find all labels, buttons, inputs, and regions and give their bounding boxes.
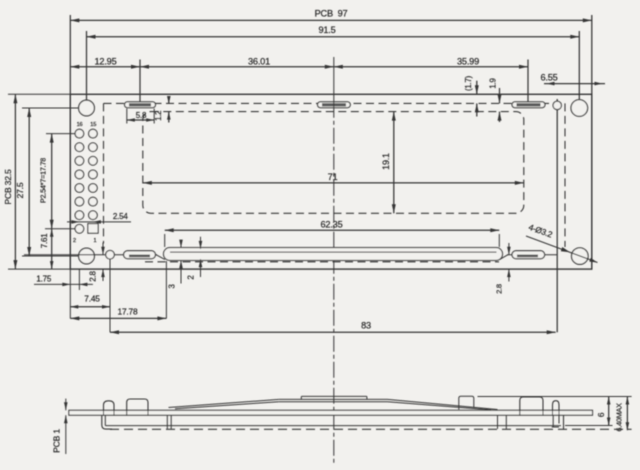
svg-text:P2.54*7=17.78: P2.54*7=17.78 [39, 158, 48, 203]
dimension PCB 1 [51, 399, 67, 454]
side view bezel wedge lower-left diagonal [175, 402, 279, 409]
pin label 15 [90, 122, 96, 128]
side view fold seam left a [166, 415, 168, 429]
svg-text:2.54: 2.54 [113, 212, 129, 221]
svg-text:6: 6 [596, 412, 606, 417]
svg-text:16: 16 [77, 122, 83, 128]
side view bezel right top edge [478, 396, 593, 398]
svg-text:12.95: 12.95 [95, 57, 117, 67]
svg-text:1.9: 1.9 [489, 78, 498, 88]
side view bezel wedge upper-right diagonal [388, 399, 498, 409]
extension line PCB right edge up [591, 15, 593, 94]
pin label 2 [73, 238, 76, 244]
mounting hole bottom-left [79, 248, 95, 264]
top slot 1 (5.8 slot) [125, 102, 156, 108]
long slot outline [164, 248, 503, 261]
side view left pin tab [104, 401, 115, 415]
dimension 6 [596, 397, 611, 426]
bottom row centerline left [24, 254, 157, 256]
svg-text:17.78: 17.78 [118, 306, 139, 316]
long slot right lead-in [500, 255, 509, 260]
pin label 1 [94, 238, 97, 244]
svg-text:83: 83 [361, 321, 371, 331]
dimension 2.8 left [88, 243, 104, 282]
side view bezel plateau [301, 396, 367, 399]
dimension 3 (slot height) [168, 240, 183, 289]
small hole top-right [553, 101, 561, 109]
small hole bottom-left [106, 250, 115, 259]
svg-text:36.01: 36.01 [248, 57, 270, 67]
svg-text:27.5: 27.5 [15, 182, 25, 198]
bezel outline right edge (dashed) [564, 103, 566, 247]
dimension PCB 32.5 [3, 94, 18, 269]
svg-text:7.45: 7.45 [84, 293, 100, 303]
bottom slot pad right [512, 251, 545, 259]
mounting hole bottom-right [572, 248, 589, 265]
dimension 6.40MAX [615, 397, 630, 432]
extension line right mounting hole up [578, 31, 580, 100]
side view fold seam right b [505, 415, 507, 429]
svg-text:PCB 32.5: PCB 32.5 [3, 169, 13, 205]
pin label 16 [77, 122, 83, 128]
dimension 91.5 [87, 25, 580, 39]
side view frame right wall [563, 415, 565, 429]
svg-text:PCB 97: PCB 97 [315, 9, 348, 19]
svg-text:6.55: 6.55 [540, 73, 557, 83]
side view left slot tab [127, 399, 148, 415]
vertical centerline [333, 57, 335, 464]
dimension P2.54*7=17.78 [39, 134, 54, 229]
svg-text:PCB 1: PCB 1 [51, 429, 61, 453]
side view bezel top line [279, 398, 388, 400]
dimension 83 [110, 321, 556, 335]
svg-text:2: 2 [73, 238, 76, 244]
dimension 35.99 [334, 57, 528, 69]
extension line left mounting hole up [86, 31, 88, 100]
long slot inner line [170, 251, 497, 253]
side view bezel wedge upper-left diagonal [169, 399, 279, 407]
dimension 12.95 [70, 57, 140, 69]
bottom slot pad left [124, 251, 156, 259]
side view right pin tab [553, 401, 560, 416]
dimension 19.1 [381, 112, 396, 214]
side view bezel inner top line [279, 401, 388, 403]
extension line small hole right [556, 99, 558, 332]
svg-text:62.35: 62.35 [321, 220, 343, 230]
mounting hole top-left [79, 100, 95, 116]
top slot 3 (right) [512, 102, 545, 108]
dimension (1.7) [464, 75, 479, 116]
svg-text:71: 71 [328, 172, 338, 182]
dimension 5.8 [127, 109, 154, 124]
side view frame bottom dashed line [110, 428, 632, 430]
dimension 17.78 [70, 261, 166, 320]
bezel outline top edge (dashed) [104, 102, 566, 104]
side view PCB bar [69, 410, 593, 415]
svg-text:5.8: 5.8 [136, 111, 147, 120]
dimension 71 [143, 172, 524, 185]
side view fold seam right a [497, 415, 499, 429]
extension line slot3 center [527, 60, 529, 103]
svg-text:7.61: 7.61 [40, 233, 49, 249]
svg-text:19.1: 19.1 [381, 153, 391, 170]
connector line pin row1 [46, 133, 75, 135]
bottom row centerline right [507, 254, 557, 256]
top slot 2 (middle) [318, 102, 351, 108]
long slot left lead-in [156, 255, 165, 260]
svg-text:91.5: 91.5 [318, 25, 335, 35]
bezel outline left edge (dashed) [103, 103, 105, 243]
dimension 1.2 [154, 96, 171, 123]
svg-text:1: 1 [94, 238, 97, 244]
side view fold seam left b [170, 415, 172, 429]
dimension 27.5 [15, 108, 31, 256]
dimension 2.54 pitch [67, 212, 131, 224]
side view bezel wedge lower-right diagonal [388, 402, 492, 410]
svg-text:2.8: 2.8 [495, 284, 504, 294]
bezel outline bottom edge (dashed) [145, 261, 499, 263]
svg-text:6.40MAX: 6.40MAX [615, 403, 624, 432]
dimension 7.61 [40, 229, 54, 269]
connector line pcb bottom-left [8, 268, 70, 270]
side view right bump tab [459, 396, 474, 409]
PCB outline front view [70, 94, 592, 269]
connector pin holes 2x8 [75, 129, 98, 233]
svg-text:1.75: 1.75 [36, 275, 52, 284]
dimension 1.75 [34, 269, 93, 318]
connector line pin row8 [45, 228, 75, 230]
dimension 62.35 [165, 220, 500, 247]
side view frame left wall [102, 415, 112, 429]
svg-text:2.8: 2.8 [88, 270, 97, 281]
dimension 7.45 [70, 259, 110, 332]
svg-text:35.99: 35.99 [457, 57, 479, 67]
connector line hole bottom-left [22, 255, 79, 257]
connector line pcb top-left [8, 93, 70, 95]
svg-text:(1.7): (1.7) [464, 75, 473, 91]
dimension 1.9 [489, 78, 502, 122]
dimension PCB 97 [70, 9, 592, 23]
svg-text:15: 15 [90, 122, 96, 128]
side view right slot tab [520, 397, 543, 415]
dimension 6.55 [540, 73, 605, 86]
dimension 2.8 right [495, 243, 511, 294]
side view frame bottom inner line [105, 425, 561, 427]
extension line frame bottom right [565, 425, 613, 427]
display window (dashed rounded rect) [143, 112, 524, 214]
label 4-&#216;3.2 with leader [526, 222, 598, 265]
connector line hole top-left [22, 107, 78, 109]
mounting hole top-right [571, 100, 588, 117]
dimension 2 (slot inner height) [187, 237, 203, 280]
dimension 36.01 [140, 57, 334, 69]
extension line slot1 center [139, 60, 141, 103]
svg-text:1.2: 1.2 [154, 111, 163, 121]
side view right pin foot [552, 415, 559, 427]
extension line bezel top right [593, 396, 632, 398]
extension line PCB left edge up [69, 15, 71, 94]
